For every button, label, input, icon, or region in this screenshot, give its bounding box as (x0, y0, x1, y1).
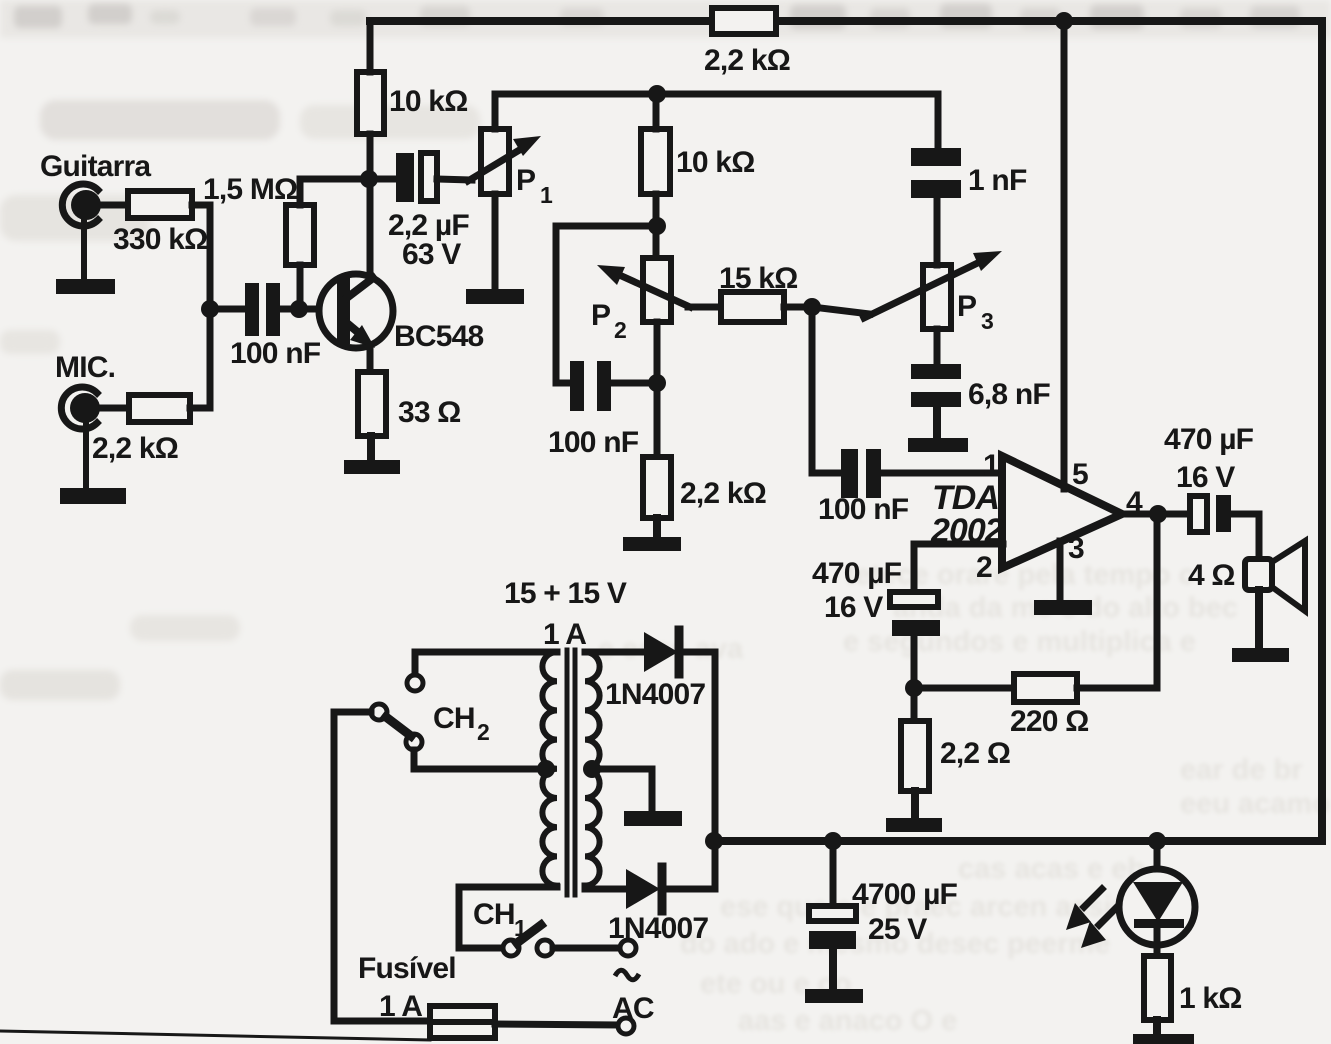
svg-text:16 V: 16 V (824, 591, 883, 624)
wire node N to C9 (830, 841, 837, 906)
svg-text:4700 µF: 4700 µF (852, 878, 958, 911)
node K (primary tap) (537, 760, 555, 778)
svg-text:1,5 MΩ: 1,5 MΩ (203, 173, 297, 206)
ground (under R8) (623, 518, 681, 551)
svg-text:25 V: 25 V (868, 913, 927, 946)
svg-text:2002: 2002 (930, 512, 1004, 550)
svg-text:2: 2 (976, 551, 992, 584)
svg-text:1 A: 1 A (379, 990, 422, 1023)
jack J1 Guitarra (62, 184, 101, 226)
svg-text:AC: AC (612, 992, 654, 1025)
ground (under R5) (344, 436, 400, 474)
svg-text:5: 5 (1072, 458, 1088, 491)
svg-text:100 nF: 100 nF (818, 493, 909, 526)
wire primary bottom to CH1 (459, 887, 557, 948)
wire R2 to node A (190, 309, 210, 408)
svg-text:2,2 kΩ: 2,2 kΩ (704, 44, 790, 77)
svg-text:3: 3 (1068, 532, 1084, 565)
wire P3 bottom to C6 (934, 329, 941, 364)
wire C4 to pin 1 of U1 (881, 470, 1003, 477)
svg-text:1 kΩ: 1 kΩ (1179, 982, 1242, 1015)
capacitor C5 1 nF (911, 148, 961, 198)
svg-text:6,8 nF: 6,8 nF (968, 378, 1050, 411)
wire CH2 bottom to primary tap (414, 750, 546, 769)
potentiometer P3 (864, 251, 1002, 329)
svg-text:4 Ω: 4 Ω (1188, 559, 1235, 592)
svg-text:Fusível: Fusível (358, 952, 456, 985)
wire P1 top to wire net D (495, 94, 938, 129)
potentiometer P1 (468, 129, 541, 194)
svg-text:15 + 15 V: 15 + 15 V (504, 577, 627, 610)
node H (803, 298, 821, 316)
svg-text:16 V: 16 V (1176, 461, 1235, 494)
wire node I to R11 (911, 688, 918, 721)
switch CH1 (503, 925, 553, 956)
svg-text:2,2 kΩ: 2,2 kΩ (680, 477, 766, 510)
wire C5 to P3 top (934, 198, 941, 265)
svg-text:2,2 Ω: 2,2 Ω (940, 737, 1010, 770)
svg-text:2: 2 (614, 317, 626, 343)
wire node H down to C4 (812, 307, 841, 473)
wire P1 bottom to ground (492, 194, 499, 291)
wire C7 to node I (911, 636, 918, 688)
wire R10 to node J (pin 4 net) (1077, 514, 1157, 688)
svg-text:1 nF: 1 nF (968, 164, 1027, 197)
ground (under R11) (886, 791, 942, 832)
node A (input junction) (201, 300, 219, 318)
wire pin 3 of U1 to ground (1057, 541, 1064, 602)
ground (pin 3) (1034, 600, 1092, 615)
wire node F left and down to C3 (556, 226, 657, 383)
node B (base node, R3 bottom) (290, 300, 308, 318)
bottom rail V+ (714, 837, 1322, 845)
wire node I to R10 (914, 685, 1014, 692)
wire R1 to node A (192, 205, 210, 309)
resistor R9 15 kΩ (721, 292, 784, 322)
svg-text:P: P (957, 290, 976, 323)
svg-text:33 Ω: 33 Ω (398, 396, 461, 429)
svg-text:1N4007: 1N4007 (605, 678, 705, 711)
svg-text:220 Ω: 220 Ω (1010, 705, 1088, 738)
resistor R12 1 kΩ (1144, 956, 1171, 1020)
wire node C up through R4 to top rail (367, 134, 374, 170)
wire collector of Q1 up to node C (367, 179, 374, 277)
svg-text:2,2 kΩ: 2,2 kΩ (92, 432, 178, 465)
wire node C to C2 (369, 176, 397, 183)
wire rectifier output (712, 652, 719, 889)
resistor R4 10 kΩ (collector) (357, 72, 384, 134)
ground (under C6) (908, 407, 968, 452)
transistor Q1 BC548 (319, 274, 393, 348)
svg-text:1N4007: 1N4007 (608, 912, 708, 945)
wire C2 to P1 wiper (437, 179, 472, 180)
wire pin 4 of U1 to C8 (1124, 511, 1190, 518)
ground (under J2) (60, 425, 126, 504)
transformer T1 primary winding (542, 652, 557, 886)
resistor R3 1,5 MΩ (286, 205, 314, 265)
AC terminal top (620, 940, 636, 956)
wire pin 5 of U1 to node E (1061, 21, 1068, 489)
capacitor C7 470 µF 16 V (890, 592, 940, 636)
node I (905, 679, 923, 697)
ground (under C9) (805, 949, 863, 1003)
wire R9 to node H (784, 304, 812, 311)
resistor R11 2,2 Ω (901, 721, 929, 791)
svg-text:eeu acamo: eeu acamo (1180, 788, 1330, 820)
AC terminal bottom (618, 1018, 634, 1034)
wire emitter of Q1 to R5 (367, 347, 374, 372)
capacitor C3 100 nF (570, 361, 611, 411)
svg-text:MIC.: MIC. (55, 351, 115, 384)
capacitor C4 100 nF (841, 449, 881, 498)
svg-text:1 A: 1 A (543, 618, 586, 651)
wire jack J1 to R1 (98, 202, 128, 209)
capacitor C9 4700 µF 25 V (809, 906, 856, 949)
node O (LED tap) (1148, 832, 1166, 850)
wire node A to C1 (210, 306, 245, 313)
resistor R7 10 kΩ (641, 129, 670, 194)
capacitor C1 100 nF (245, 283, 280, 336)
svg-text:4: 4 (1126, 486, 1143, 519)
speaker LS1 4Ω (1245, 541, 1305, 611)
svg-text:CH: CH (473, 898, 515, 931)
svg-text:330 kΩ: 330 kΩ (113, 223, 207, 256)
switch CH2 (371, 675, 423, 750)
diode D1 1N4007 (585, 630, 715, 674)
svg-text:100 nF: 100 nF (548, 426, 639, 459)
node N (4700µF tap) (824, 832, 842, 850)
svg-text:1: 1 (983, 449, 999, 482)
wire primary top to CH2 (415, 652, 557, 675)
diode D2 1N4007 (585, 867, 715, 911)
node J (1149, 505, 1167, 523)
wire C8 to speaker (1231, 514, 1259, 559)
wire C3 to node G (611, 380, 657, 387)
LED D3 (1119, 841, 1195, 956)
svg-text:470 µF: 470 µF (1164, 423, 1254, 456)
svg-text:P: P (591, 299, 610, 332)
wire CH2 pole to left rail (334, 709, 371, 716)
wire node H to P3 wiper (812, 307, 870, 314)
svg-text:cas acas e eb: cas acas e eb (958, 853, 1145, 885)
ground (secondary tap) (624, 811, 682, 826)
fuse F1 (430, 1006, 495, 1038)
wire jack J2 to R2 (97, 405, 129, 412)
LED arrows (1066, 889, 1117, 948)
svg-text:100 nF: 100 nF (230, 337, 321, 370)
capacitor C6 6,8 nF (911, 364, 961, 407)
node M (V+ out) (705, 832, 723, 850)
wire pin 2 of U1 to C7 (914, 544, 1003, 592)
node L (secondary tap) (583, 760, 601, 778)
top rail wire (370, 17, 1322, 25)
capacitor C2 2,2 µF 63 V (396, 153, 437, 202)
label ~ (615, 970, 639, 980)
wire right border (V+) (1318, 21, 1326, 841)
wire left AC rail down (334, 712, 430, 1021)
svg-text:470 µF: 470 µF (812, 557, 902, 590)
capacitor C8 470 µF 16 V (1190, 495, 1231, 532)
wire R3 bottom to node B (297, 265, 304, 309)
ground (under LS1) (1232, 590, 1289, 662)
svg-text:ear de br: ear de br (1180, 754, 1303, 786)
transformer T1 secondary winding (585, 652, 600, 886)
wire P2 bottom through node G to R8 (654, 322, 661, 457)
svg-text:aas e anaco O e: aas e anaco O e (738, 1005, 957, 1037)
svg-text:1: 1 (540, 182, 553, 208)
node E (pin5 tap on rail) (1055, 12, 1073, 30)
svg-text:10 kΩ: 10 kΩ (676, 146, 754, 179)
svg-text:15 kΩ: 15 kΩ (719, 262, 797, 295)
svg-text:P: P (516, 164, 535, 197)
node F (R7/P2 node) (648, 217, 666, 235)
wire R7 bottom to P2 top (653, 194, 660, 258)
wire C1 to base of Q1 (280, 306, 340, 313)
op-amp U1 TDA2002 (1002, 456, 1122, 568)
svg-text:10 kΩ: 10 kΩ (389, 85, 467, 118)
wire CH1 to AC terminal (553, 945, 620, 952)
node D (net to 10k / 1nF) (648, 85, 666, 103)
resistor R6 2,2 kΩ (top rail) (712, 8, 776, 34)
svg-text:CH: CH (433, 702, 475, 735)
page edge line bottom-left (0, 1031, 430, 1040)
wire P2 wiper to R9 (688, 304, 721, 311)
resistor R5 33 Ω (358, 372, 386, 436)
svg-text:63 V: 63 V (402, 238, 461, 271)
wire net D down to C5 (935, 94, 942, 148)
ground (under J1) (56, 222, 115, 294)
resistor R8 2,2 kΩ (643, 457, 671, 518)
svg-text:BC548: BC548 (394, 320, 483, 353)
resistor R10 220 Ω (1014, 674, 1077, 702)
jack J2 MIC. (61, 387, 100, 429)
svg-text:1: 1 (514, 915, 527, 941)
resistor R1 330 kΩ (128, 191, 192, 218)
potentiometer P2 (597, 258, 690, 322)
node C (collector node) (360, 170, 378, 188)
wire fuse to AC terminal bottom (495, 1024, 618, 1025)
svg-text:3: 3 (981, 308, 993, 334)
node G (648, 374, 666, 392)
wire R3 top to collector node C (300, 179, 368, 205)
svg-text:2: 2 (477, 719, 489, 745)
resistor R2 2,2 kΩ (129, 395, 190, 422)
wire secondary tap to ground (592, 769, 652, 813)
ground (under R12) (1133, 1020, 1194, 1044)
wire node D to R7 (653, 94, 660, 129)
svg-text:Guitarra: Guitarra (40, 150, 151, 183)
transformer T1 core (567, 650, 575, 895)
ground (under P1) (466, 289, 524, 304)
